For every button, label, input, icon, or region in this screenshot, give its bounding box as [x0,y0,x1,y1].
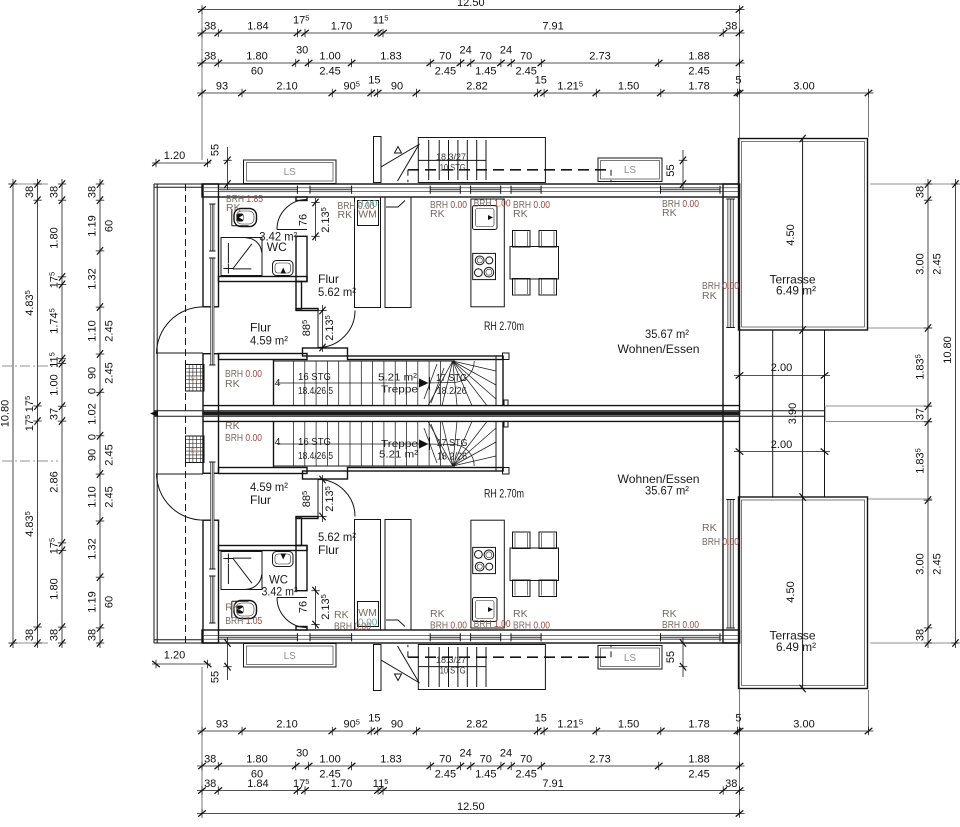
svg-text:15: 15 [535,75,547,87]
svg-text:RK: RK [338,209,353,221]
svg-text:2.45: 2.45 [688,66,709,78]
svg-text:RK: RK [702,522,717,534]
svg-text:38: 38 [204,778,216,790]
svg-text:1.88: 1.88 [688,754,709,766]
svg-text:38: 38 [204,754,216,766]
svg-text:Flur: Flur [250,321,271,335]
svg-text:10.80: 10.80 [0,400,12,428]
svg-text:1.88: 1.88 [688,51,709,63]
svg-text:38: 38 [204,21,216,33]
svg-text:38: 38 [49,629,61,641]
svg-text:2.45: 2.45 [104,362,116,383]
svg-text:1.78: 1.78 [688,81,709,93]
svg-text:93: 93 [216,719,228,731]
svg-text:18.4/26.5: 18.4/26.5 [298,385,333,397]
svg-text:18.3/27: 18.3/27 [436,655,466,666]
svg-text:Treppe: Treppe [381,384,418,396]
svg-text:1.83: 1.83 [380,754,401,766]
svg-text:1.10: 1.10 [87,320,99,341]
svg-text:RK: RK [225,378,240,390]
svg-text:70: 70 [439,51,451,63]
svg-text:60: 60 [104,596,116,608]
svg-text:60: 60 [251,66,263,78]
svg-text:2.45: 2.45 [932,553,944,574]
svg-text:RK: RK [225,602,240,614]
svg-text:18.3/27: 18.3/27 [436,152,466,163]
svg-text:4.59 m²: 4.59 m² [250,334,288,348]
svg-text:4: 4 [275,377,281,389]
svg-text:18.2/26: 18.2/26 [437,385,467,397]
svg-text:RK: RK [430,208,445,220]
svg-text:1.02: 1.02 [87,403,99,424]
LS light shafts [244,160,337,184]
svg-text:30: 30 [296,45,308,57]
svg-text:RK: RK [430,608,445,620]
svg-text:30: 30 [296,748,308,760]
svg-text:2.10: 2.10 [276,719,297,731]
svg-text:76: 76 [298,214,310,226]
svg-text:76: 76 [298,601,310,613]
svg-text:38: 38 [49,186,61,198]
svg-text:2.82: 2.82 [466,719,487,731]
svg-text:0: 0 [87,434,99,440]
svg-text:10.80: 10.80 [942,336,954,364]
svg-text:RH 2.70m: RH 2.70m [484,319,524,333]
svg-text:3.42 m²: 3.42 m² [262,585,298,599]
svg-text:1.10: 1.10 [87,486,99,507]
svg-text:1.00: 1.00 [319,754,340,766]
svg-text:1.45: 1.45 [475,66,496,78]
svg-text:38: 38 [87,186,99,198]
svg-text:2.45: 2.45 [435,769,456,781]
svg-text:1.50: 1.50 [618,719,639,731]
svg-text:1.84: 1.84 [247,21,268,33]
svg-text:16 STG: 16 STG [298,436,331,448]
carport canopy edge [154,183,203,185]
bottom dimension chains [197,730,874,732]
svg-text:2.45: 2.45 [435,66,456,78]
svg-text:38: 38 [24,629,36,641]
right dimension chains [927,179,929,648]
svg-text:38: 38 [204,51,216,63]
svg-text:1.83: 1.83 [380,51,401,63]
svg-text:1.45: 1.45 [475,769,496,781]
svg-text:90: 90 [87,367,99,379]
staircase 16 STG with winder [273,360,275,406]
svg-text:1.00: 1.00 [319,51,340,63]
svg-text:BRH 0.00: BRH 0.00 [702,536,739,548]
svg-text:Flur: Flur [250,493,271,507]
svg-text:2.45: 2.45 [932,253,944,274]
svg-text:70: 70 [520,754,532,766]
svg-text:RK: RK [513,208,528,220]
svg-text:S1: S1 [190,376,199,383]
small dimensions 55 and 1.20 [227,147,229,190]
svg-text:1.00: 1.00 [49,374,61,395]
svg-text:4.50: 4.50 [785,224,797,245]
svg-text:1.70: 1.70 [331,778,352,790]
svg-text:15: 15 [368,75,380,87]
svg-text:6.49 m²: 6.49 m² [776,284,816,298]
svg-text:55: 55 [210,671,222,683]
svg-text:WC: WC [267,240,287,254]
svg-text:0.00: 0.00 [358,618,378,629]
svg-text:3.00: 3.00 [793,719,814,731]
svg-text:BRH 0.00: BRH 0.00 [513,620,550,632]
svg-text:18.2/26: 18.2/26 [437,451,467,463]
svg-text:5: 5 [735,713,741,725]
svg-text:70: 70 [480,51,492,63]
svg-text:2.73: 2.73 [589,754,610,766]
svg-text:10 STG: 10 STG [440,163,466,174]
svg-text:38: 38 [725,21,737,33]
exterior walls [202,184,740,197]
svg-text:1.80: 1.80 [49,578,61,599]
svg-text:LS: LS [284,167,297,178]
svg-text:Flur: Flur [318,543,339,557]
external entrance stair 10 STG [374,137,382,183]
svg-text:35.67 m²: 35.67 m² [645,327,689,341]
svg-text:38: 38 [87,629,99,641]
svg-text:BRH 0.00: BRH 0.00 [225,432,262,444]
svg-text:60: 60 [104,220,116,232]
svg-text:15: 15 [368,713,380,725]
svg-text:12.50: 12.50 [457,0,485,9]
svg-text:1.80: 1.80 [246,51,267,63]
built-in closets with washing machine WM [355,197,381,308]
terrace 6.49 m2 [739,139,868,331]
svg-text:WM: WM [358,209,377,221]
svg-text:55: 55 [665,164,677,176]
svg-text:38: 38 [24,186,36,198]
svg-text:1.19: 1.19 [87,591,99,612]
svg-text:38: 38 [915,186,927,198]
svg-text:37: 37 [49,408,61,420]
WC room and fixtures [219,277,308,282]
svg-text:1.32: 1.32 [87,268,99,289]
svg-text:7.91: 7.91 [542,778,563,790]
svg-text:55: 55 [210,144,222,156]
svg-text:0: 0 [87,388,99,394]
svg-text:1.32: 1.32 [87,538,99,559]
svg-text:RH 2.70m: RH 2.70m [484,487,524,501]
svg-text:90: 90 [391,719,403,731]
svg-text:2.82: 2.82 [466,81,487,93]
svg-text:2.00: 2.00 [771,362,792,374]
svg-text:38: 38 [915,629,927,641]
svg-text:S1: S1 [190,448,199,455]
svg-text:2.45: 2.45 [104,320,116,341]
svg-text:Wohnen/Essen: Wohnen/Essen [618,342,700,356]
svg-text:3.90: 3.90 [787,403,799,424]
svg-text:RK: RK [513,608,528,620]
svg-text:93: 93 [216,81,228,93]
svg-text:LS: LS [624,165,637,176]
svg-text:RK: RK [334,609,349,621]
svg-text:37: 37 [915,408,927,420]
svg-text:10 STG: 10 STG [440,666,466,677]
svg-text:4.59 m²: 4.59 m² [250,480,288,494]
kitchen counter, sink and stove [471,199,504,307]
svg-text:1.84: 1.84 [247,778,268,790]
svg-text:5: 5 [735,75,741,87]
svg-text:BRH 0.00: BRH 0.00 [662,619,699,631]
svg-text:5.21 m²: 5.21 m² [378,372,418,384]
svg-text:LS: LS [284,651,297,662]
entrance door [156,352,203,354]
svg-text:70: 70 [520,51,532,63]
svg-text:3.00: 3.00 [915,253,927,274]
svg-text:38: 38 [725,778,737,790]
top wall window glazing [204,187,740,189]
svg-text:1.80: 1.80 [49,227,61,248]
svg-text:2.45: 2.45 [515,769,536,781]
svg-text:90: 90 [87,449,99,461]
svg-text:17 STG: 17 STG [436,372,467,384]
svg-text:2.86: 2.86 [49,471,61,492]
witness extension lines [867,97,869,137]
svg-text:BRH 1.00: BRH 1.00 [474,618,511,630]
hall walls and interior door [296,282,302,310]
svg-text:2.10: 2.10 [276,81,297,93]
svg-text:12.50: 12.50 [457,801,485,813]
svg-text:5.62 m²: 5.62 m² [318,530,356,544]
svg-text:35.67 m²: 35.67 m² [645,484,689,498]
svg-text:6.49 m²: 6.49 m² [776,640,816,654]
svg-text:55: 55 [665,651,677,663]
svg-text:24: 24 [459,748,471,760]
svg-text:70: 70 [439,754,451,766]
svg-text:70: 70 [480,754,492,766]
svg-text:2.45: 2.45 [319,66,340,78]
svg-text:5.21 m²: 5.21 m² [379,449,419,461]
svg-text:RK: RK [702,290,717,302]
svg-text:2.45: 2.45 [104,444,116,465]
svg-text:RK: RK [225,420,240,432]
svg-text:2.45: 2.45 [104,486,116,507]
left dimension chains [12,179,14,648]
svg-text:3.00: 3.00 [915,553,927,574]
svg-text:4.50: 4.50 [785,581,797,602]
svg-text:LS: LS [624,653,637,664]
svg-text:5.62 m²: 5.62 m² [318,285,356,299]
svg-text:24: 24 [500,748,512,760]
svg-text:RK: RK [226,202,241,214]
svg-text:15: 15 [535,713,547,725]
svg-text:4: 4 [275,436,281,448]
svg-text:18.4/26.5: 18.4/26.5 [298,450,333,462]
svg-text:BRH 0.00: BRH 0.00 [430,620,467,632]
party wall between units [203,405,740,407]
svg-text:BRH 1.00: BRH 1.00 [474,198,511,210]
svg-text:1.19: 1.19 [87,215,99,236]
dining table with four chairs [510,247,559,280]
top dimension chains [197,9,745,11]
svg-text:2.45: 2.45 [688,769,709,781]
svg-text:1.80: 1.80 [246,754,267,766]
svg-text:1.20: 1.20 [164,650,185,662]
svg-text:RK: RK [662,207,677,219]
svg-text:24: 24 [459,45,471,57]
svg-text:1.50: 1.50 [618,81,639,93]
svg-text:17 STG: 17 STG [437,437,468,449]
svg-text:Flur: Flur [318,272,339,286]
svg-text:90: 90 [391,81,403,93]
svg-text:1.78: 1.78 [688,719,709,731]
svg-text:2.73: 2.73 [589,51,610,63]
svg-text:BRH 1.05: BRH 1.05 [225,615,262,627]
svg-text:1.20: 1.20 [164,150,185,162]
svg-text:2.00: 2.00 [771,439,792,451]
svg-text:3.00: 3.00 [793,81,814,93]
svg-text:24: 24 [500,45,512,57]
svg-text:16 STG: 16 STG [298,371,331,383]
svg-text:1.70: 1.70 [331,21,352,33]
svg-text:7.91: 7.91 [542,21,563,33]
